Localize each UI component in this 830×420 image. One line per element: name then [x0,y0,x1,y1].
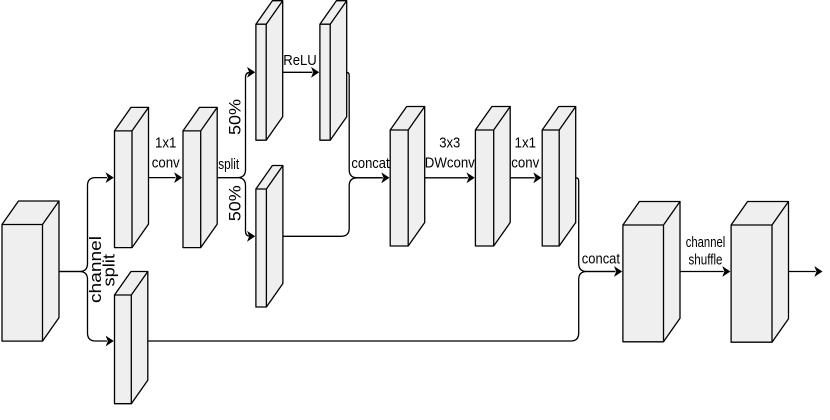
svg-text:concat: concat [582,251,621,268]
svg-text:DWconv: DWconv [425,155,475,172]
svg-text:conv: conv [511,155,539,172]
svg-text:50%: 50% [226,99,245,135]
svg-text:shuffle: shuffle [689,252,723,269]
svg-text:1x1: 1x1 [515,134,537,151]
svg-text:3x3: 3x3 [439,134,460,151]
svg-text:concat: concat [351,155,390,172]
svg-text:split: split [218,156,240,173]
svg-text:50%: 50% [226,185,245,221]
svg-text:channel: channel [686,234,726,251]
svg-text:1x1: 1x1 [155,134,177,151]
svg-text:ReLU: ReLU [283,52,317,69]
svg-text:split: split [99,254,118,287]
svg-text:conv: conv [152,155,180,172]
